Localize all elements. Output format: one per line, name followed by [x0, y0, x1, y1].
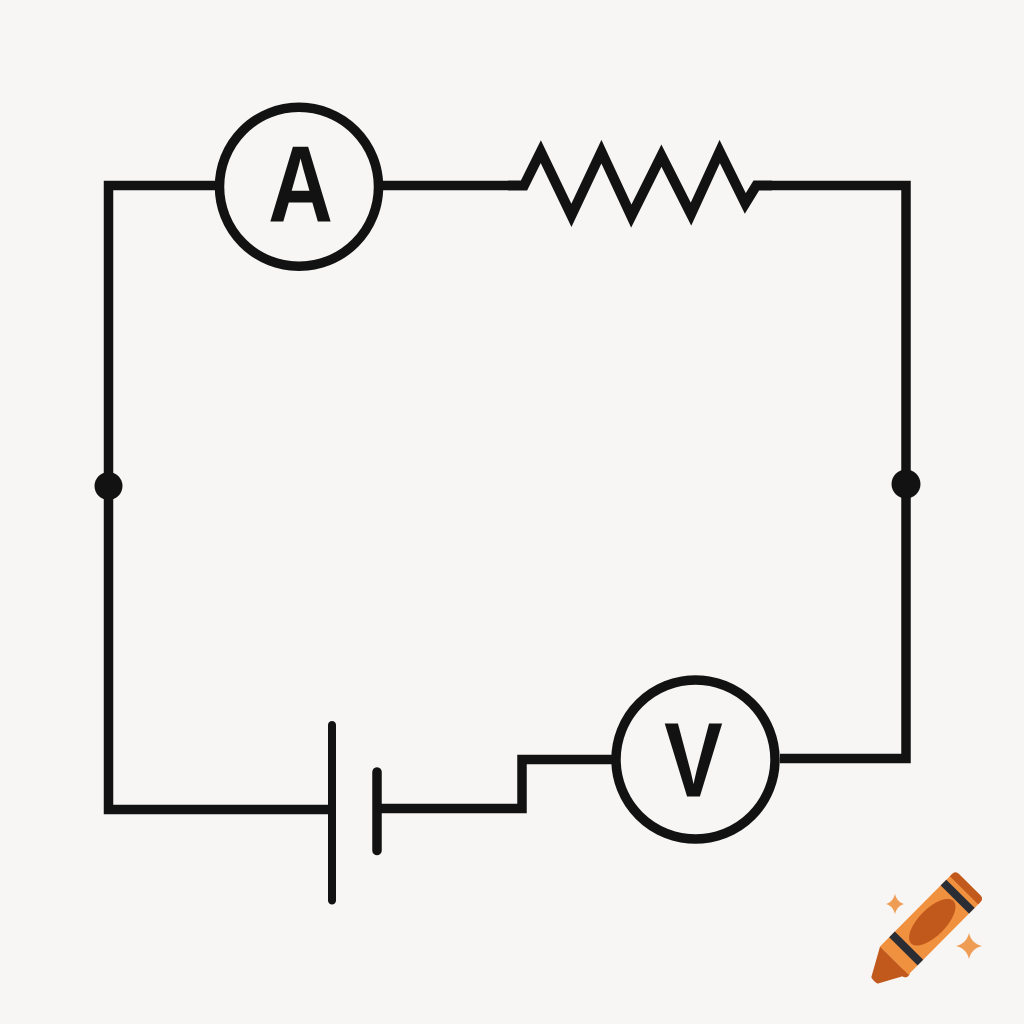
voltmeter label V [664, 701, 723, 820]
crayon tip cone [860, 946, 909, 995]
crayon logo [860, 871, 985, 996]
wire: ammeter left terminal, left rail down to battery positive plate [109, 186, 329, 810]
svg-text:A: A [268, 124, 333, 245]
crayon band near tip [889, 932, 923, 966]
crayon label ellipse [902, 891, 963, 953]
node junction left [95, 472, 123, 500]
resistor R1 [508, 152, 772, 217]
wire: battery negative plate, step up, to voltmeter left terminal [381, 760, 613, 809]
svg-text:V: V [664, 701, 723, 820]
node junction right [892, 470, 921, 499]
ammeter A1 [220, 107, 379, 266]
crayon band near end [941, 880, 975, 914]
ammeter circle [220, 107, 379, 266]
sparkle large (right of crayon) [956, 933, 982, 959]
crayon body [880, 871, 984, 975]
battery short plate (negative) [372, 772, 382, 851]
ammeter label A [268, 124, 333, 245]
crayon end cap [950, 871, 984, 905]
voltmeter V1 [616, 680, 775, 839]
crayon tip collar bump [899, 967, 912, 980]
sparkle small (upper-left of crayon) [886, 894, 904, 914]
battery long plate (positive) [328, 725, 336, 901]
voltmeter circle [616, 680, 775, 839]
wire: resistor to right rail down to voltmeter right terminal [754, 186, 906, 759]
battery BT1 [332, 725, 377, 901]
wire: ammeter right terminal to resistor [383, 181, 526, 191]
